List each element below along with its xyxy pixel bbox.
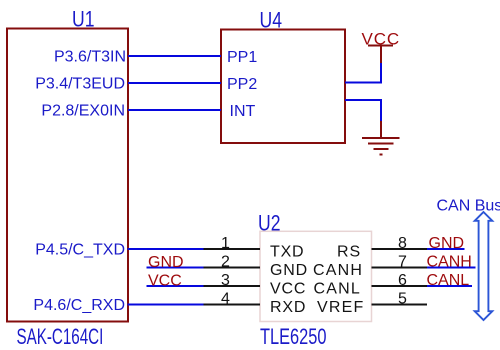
wire P4.5/C_TXD to pin 1 (128, 248, 205, 250)
IC U4 body (221, 30, 345, 144)
svg-text:CAN Bus: CAN Bus (437, 198, 500, 215)
svg-text:5: 5 (398, 291, 407, 308)
svg-text:U4: U4 (260, 9, 282, 33)
wire P3.4/T3EUD to PP2 (128, 82, 221, 84)
U2 pin 1 stub (204, 248, 261, 250)
wire P3.6/T3IN to PP1 (128, 55, 221, 57)
svg-text:4: 4 (221, 291, 230, 308)
svg-text:PP1: PP1 (227, 49, 257, 66)
svg-text:6: 6 (398, 272, 407, 289)
U2 pin 4 stub (204, 304, 261, 306)
svg-text:GND: GND (148, 254, 184, 271)
svg-text:CANH: CANH (427, 254, 472, 271)
U2 pin 8 stub (372, 248, 428, 250)
svg-text:TLE6250: TLE6250 (260, 325, 327, 350)
svg-text:TXD: TXD (270, 244, 304, 261)
svg-text:GND: GND (270, 262, 308, 279)
svg-text:1: 1 (221, 235, 230, 252)
ground symbol bar 4 (380, 154, 383, 156)
svg-text:U2: U2 (258, 212, 280, 236)
CAN Bus arrow (475, 212, 493, 320)
svg-text:P2.8/EX0IN: P2.8/EX0IN (41, 103, 125, 120)
ground stem (380, 121, 382, 138)
wire P2.8/EX0IN to INT (128, 109, 221, 111)
U2 pin 3 stub (204, 285, 261, 287)
svg-text:3: 3 (221, 272, 230, 289)
IC U2 body (TLE6250 CAN transceiver) (260, 231, 372, 321)
wire net GND at pin 8 (427, 248, 465, 250)
wire net GND to pin 2 (147, 267, 205, 269)
wire U4 to ground (345, 100, 381, 122)
ground symbol bar 3 (374, 148, 389, 150)
svg-text:RXD: RXD (270, 299, 306, 316)
wire net CANL at pin 6 (427, 285, 473, 287)
wire net CANH at pin 7 (427, 267, 476, 269)
svg-text:8: 8 (398, 235, 407, 252)
svg-text:SAK-C164CI: SAK-C164CI (17, 325, 104, 349)
svg-text:U1: U1 (72, 8, 94, 32)
U2 pin 5 stub (372, 304, 428, 306)
svg-text:P4.6/C_RXD: P4.6/C_RXD (33, 297, 125, 314)
svg-text:INT: INT (230, 103, 256, 120)
svg-text:P3.6/T3IN: P3.6/T3IN (54, 49, 126, 66)
svg-text:CANL: CANL (314, 281, 361, 298)
U2 pin 6 stub (372, 285, 428, 287)
svg-text:VCC: VCC (362, 30, 401, 49)
svg-text:2: 2 (221, 254, 230, 271)
power symbol VCC bar (368, 45, 393, 47)
svg-text:PP2: PP2 (227, 76, 257, 93)
svg-text:CANL: CANL (427, 272, 470, 289)
ground symbol bar 1 (362, 137, 400, 139)
U2 pin 2 stub (204, 267, 261, 269)
svg-text:7: 7 (398, 254, 407, 271)
wire U4 to VCC power (345, 62, 381, 83)
wire net VCC to pin 3 (147, 285, 205, 287)
svg-text:CANH: CANH (313, 262, 363, 279)
svg-text:P3.4/T3EUD: P3.4/T3EUD (35, 76, 125, 93)
svg-text:VREF: VREF (317, 299, 364, 316)
svg-text:RS: RS (337, 244, 361, 261)
svg-text:VCC: VCC (270, 281, 306, 298)
svg-text:P4.5/C_TXD: P4.5/C_TXD (35, 242, 125, 259)
wire P4.6/C_RXD to pin 4 (128, 304, 205, 306)
power symbol VCC stem (380, 46, 382, 64)
U2 pin 7 stub (372, 267, 428, 269)
IC U1 body (SAK-C164CI microcontroller) (7, 29, 128, 322)
svg-text:GND: GND (429, 235, 465, 252)
ground symbol bar 2 (368, 143, 394, 145)
svg-text:VCC: VCC (148, 273, 182, 290)
